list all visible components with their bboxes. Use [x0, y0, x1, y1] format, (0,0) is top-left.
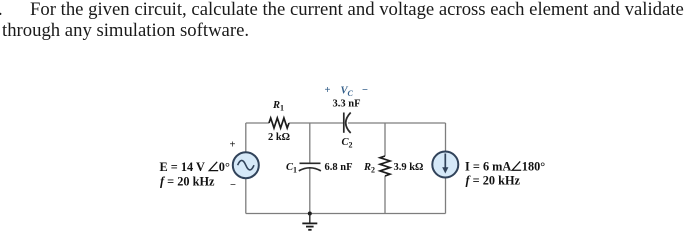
voltage source sine symbol — [238, 160, 254, 170]
ground junction dot — [308, 212, 312, 216]
svg-text:R2: R2 — [363, 162, 375, 175]
svg-text:I = 6 mA: I = 6 mA — [465, 160, 511, 174]
angle symbol (left label) — [209, 162, 218, 171]
resistor R2 (vertical zigzag) — [380, 156, 390, 176]
svg-text:3.9 kΩ: 3.9 kΩ — [394, 162, 424, 173]
wire: R2 branch upper segment — [384, 123, 386, 156]
capacitor C1 curved plate — [299, 168, 321, 171]
ground bar 3 — [308, 229, 311, 231]
svg-text:−: − — [362, 85, 368, 96]
voltage source E circle — [233, 152, 259, 178]
svg-text:+: + — [325, 85, 331, 96]
svg-text:VC: VC — [341, 86, 354, 99]
angle symbol (right label) — [512, 161, 521, 170]
wire: top rail middle segment (R1 to C2 left plate) — [289, 122, 344, 124]
wire: bottom rail — [246, 213, 446, 215]
capacitor C2 curved plate — [346, 113, 351, 134]
svg-text:C1: C1 — [286, 162, 297, 175]
svg-text:E = 14 V: E = 14 V — [160, 160, 206, 174]
svg-text:f = 20 kHz: f = 20 kHz — [466, 174, 521, 188]
current source arrow shaft — [444, 154, 446, 169]
current source I circle — [432, 152, 458, 178]
ground stub — [309, 214, 311, 224]
svg-text:C2: C2 — [342, 137, 353, 150]
current source arrow head — [442, 167, 448, 173]
svg-text:3.3 nF: 3.3 nF — [333, 99, 361, 110]
wire: left branch vertical (through voltage source) — [245, 123, 247, 214]
wire: top rail right segment (C2 to top-right corner) — [348, 122, 446, 124]
svg-text:0°: 0° — [219, 160, 230, 174]
resistor R1 (zigzag) — [269, 118, 289, 128]
wire: right branch vertical (through current source) — [445, 123, 447, 214]
svg-text:f = 20 kHz: f = 20 kHz — [160, 175, 215, 189]
ground bar 1 — [302, 222, 317, 224]
svg-text:2 kΩ: 2 kΩ — [268, 132, 290, 143]
wire: top rail left segment (corner to R1) — [246, 122, 269, 124]
problem statement text — [0, 0, 700, 1]
svg-text:R1: R1 — [272, 100, 284, 113]
wire: C1 branch lower segment — [309, 169, 311, 214]
svg-text:+: + — [230, 140, 236, 151]
wire: R2 branch lower segment — [384, 176, 386, 214]
capacitor C1 straight plate — [300, 162, 321, 164]
capacitor C2 straight plate — [343, 113, 345, 133]
wire: C1 branch upper segment — [309, 123, 311, 163]
svg-text:6.8 nF: 6.8 nF — [325, 162, 353, 173]
svg-text:−: − — [230, 180, 236, 191]
svg-text:180°: 180° — [522, 160, 545, 174]
ground bar 2 — [306, 226, 314, 228]
